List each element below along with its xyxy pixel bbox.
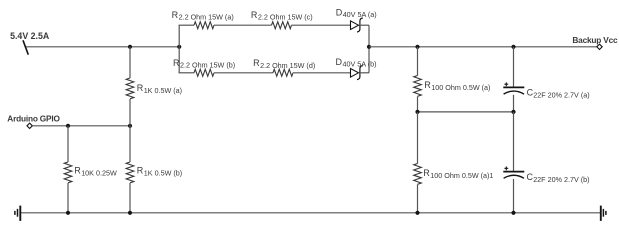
- svg-text:5.4V 2.5A: 5.4V 2.5A: [10, 31, 50, 41]
- wire top branch lead: [179, 24, 194, 26]
- svg-text:40V 5A (b): 40V 5A (b): [343, 60, 377, 69]
- wire top branch tail: [360, 24, 369, 26]
- svg-text:R: R: [137, 83, 144, 93]
- diode D40V 5A (b) schottky: [351, 69, 359, 78]
- svg-text:22F 20% 2.7V (b): 22F 20% 2.7V (b): [533, 175, 589, 184]
- svg-text:R: R: [253, 58, 260, 68]
- wire bottom branch to diode: [293, 72, 351, 74]
- svg-text:2.2 Ohm 15W (a): 2.2 Ohm 15W (a): [179, 13, 234, 22]
- terminal Arduino GPIO diamond: [27, 123, 32, 128]
- svg-text:2.2 Ohm 15W (c): 2.2 Ohm 15W (c): [258, 13, 313, 22]
- terminal Backup Vcc diamond: [597, 44, 602, 49]
- node bottom at R1K(b): [128, 211, 132, 215]
- svg-text:22F 20% 2.7V (a): 22F 20% 2.7V (a): [533, 90, 589, 99]
- resistor R2.2 Ohm 15W (c): [272, 22, 292, 29]
- resistor R2.2 Ohm 15W (b): [194, 69, 214, 76]
- resistor R1K 0.5W (b) vertical: [129, 126, 131, 162]
- wire bottom branch lead: [179, 72, 194, 74]
- wire top branch to diode: [292, 24, 351, 26]
- wire top branch mid: [214, 24, 272, 26]
- resistor R10K 0.25W vertical: [67, 126, 69, 162]
- svg-text:1K 0.5W (b): 1K 0.5W (b): [144, 169, 182, 178]
- svg-text:Arduino GPIO: Arduino GPIO: [7, 113, 60, 123]
- svg-text:R: R: [423, 168, 430, 178]
- svg-text:2.2 Ohm 15W (b): 2.2 Ohm 15W (b): [180, 61, 235, 70]
- resistor R2.2 Ohm 15W (a): [194, 22, 214, 29]
- svg-text:R: R: [172, 10, 179, 20]
- node junction bus / R1K(a): [128, 45, 132, 49]
- svg-text:100 Ohm 0.5W (a)1: 100 Ohm 0.5W (a)1: [430, 171, 493, 180]
- svg-text:R: R: [137, 166, 144, 176]
- capacitor C22F 20% 2.7V (b): [513, 112, 515, 171]
- node bus at C(a): [511, 45, 515, 49]
- svg-text:D: D: [336, 7, 343, 17]
- wire bottom bus: [20, 212, 600, 214]
- wire bottom branch tail: [360, 72, 369, 74]
- node mid rail right: [511, 110, 515, 114]
- node GPIO at R10K: [66, 124, 70, 128]
- wire GPIO rail: [32, 125, 130, 127]
- node bus at R100(a): [415, 45, 419, 49]
- svg-text:40V 5A (a): 40V 5A (a): [343, 10, 377, 19]
- node GPIO at R1K: [128, 124, 132, 128]
- node split junction: [177, 45, 181, 49]
- svg-text:R: R: [74, 166, 81, 176]
- capacitor C22F 20% 2.7V (a): [513, 47, 515, 87]
- wire main bus right segment: [369, 46, 597, 48]
- svg-text:2.2 Ohm 15W (d): 2.2 Ohm 15W (d): [260, 61, 315, 70]
- diode D40V 5A (a) schottky: [351, 21, 359, 30]
- resistor R1K 0.5W (a) vertical: [129, 47, 131, 78]
- ground right: [600, 206, 602, 221]
- resistor R100 Ohm 0.5W (b) vertical: [417, 112, 419, 164]
- wire rejoin vertical: [368, 25, 370, 73]
- svg-text:R: R: [173, 58, 180, 68]
- node bottom at C(b): [511, 211, 515, 215]
- svg-text:D: D: [336, 57, 343, 67]
- svg-text:R: R: [251, 10, 258, 20]
- resistor R2.2 Ohm 15W (d): [273, 69, 293, 76]
- wire mid rail: [418, 111, 514, 113]
- node mid rail left: [415, 110, 419, 114]
- ground left: [19, 206, 21, 221]
- input terminal 5.4V slash: [23, 40, 28, 54]
- svg-text:10K 0.25W: 10K 0.25W: [81, 169, 117, 178]
- svg-text:100 Ohm 0.5W (a): 100 Ohm 0.5W (a): [431, 83, 490, 92]
- node bottom at R10K: [66, 211, 70, 215]
- node rejoin junction: [367, 45, 371, 49]
- resistor R100 Ohm 0.5W (a) vertical: [417, 47, 419, 76]
- wire bottom branch mid: [214, 72, 273, 74]
- wire main bus left segment: [26, 46, 180, 48]
- wire split vertical: [178, 25, 180, 73]
- svg-text:1K 0.5W (a): 1K 0.5W (a): [144, 86, 182, 95]
- svg-text:R: R: [424, 80, 431, 90]
- node bottom at R100(b): [415, 211, 419, 215]
- svg-text:Backup Vcc: Backup Vcc: [572, 35, 618, 45]
